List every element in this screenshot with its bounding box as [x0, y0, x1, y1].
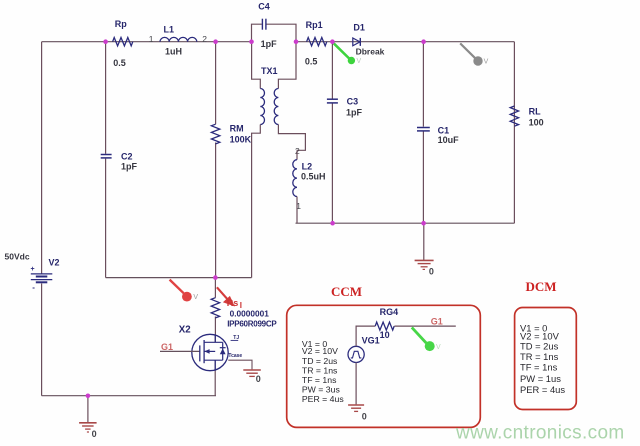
wire left edge lower	[41, 284, 43, 396]
node dot bottom rail	[86, 394, 91, 399]
current probe red at Rs	[217, 287, 242, 310]
resistor RM	[211, 124, 251, 145]
svg-text:L1: L1	[164, 24, 175, 34]
source V2 battery	[5, 252, 60, 292]
wire middle rail	[106, 277, 252, 279]
svg-text:TF = 1ns: TF = 1ns	[520, 362, 558, 373]
ground 0 at MOSFET	[243, 370, 261, 384]
svg-text:RL: RL	[529, 106, 541, 116]
svg-text:100: 100	[529, 118, 544, 128]
node dot top D	[294, 39, 299, 44]
capacitor C3	[327, 96, 363, 117]
svg-text:0.0000001: 0.0000001	[230, 309, 270, 319]
capacitor C1	[417, 125, 459, 145]
svg-text:G1: G1	[431, 317, 443, 327]
node dot top C	[249, 39, 254, 44]
svg-text:1pF: 1pF	[261, 39, 278, 49]
svg-text:50Vdc: 50Vdc	[5, 252, 30, 262]
svg-text:C2: C2	[121, 152, 133, 162]
CCM annotation box	[287, 305, 481, 427]
svg-text:Rp1: Rp1	[306, 20, 323, 30]
CCM parameter text	[302, 339, 344, 404]
inductor L2	[293, 146, 326, 223]
svg-text:C4: C4	[258, 1, 270, 11]
svg-text:TR = 1ns: TR = 1ns	[302, 366, 338, 376]
svg-text:RG4: RG4	[380, 307, 399, 317]
svg-text:1: 1	[149, 34, 154, 44]
svg-text:TF = 1ns: TF = 1ns	[302, 375, 337, 385]
voltage probe gray	[460, 43, 488, 65]
svg-text:Rs: Rs	[227, 298, 239, 308]
node dot output rail right	[421, 221, 426, 226]
svg-text:PER = 4us: PER = 4us	[302, 394, 344, 404]
svg-text:I: I	[240, 301, 242, 310]
svg-text:CCM: CCM	[331, 284, 362, 299]
svg-text:IPP60R099CP: IPP60R099CP	[227, 320, 277, 329]
capacitor C2	[101, 152, 138, 172]
svg-text:100K: 100K	[230, 135, 252, 145]
svg-text:RM: RM	[230, 124, 244, 134]
svg-text:Dbreak: Dbreak	[356, 47, 385, 57]
node dot top B	[213, 39, 218, 44]
svg-text:V: V	[484, 59, 489, 66]
svg-text:0.5: 0.5	[305, 56, 318, 66]
DCM parameter text	[520, 322, 565, 394]
svg-text:TR = 1ns: TR = 1ns	[520, 351, 559, 362]
svg-text:V2 = 10V: V2 = 10V	[520, 330, 560, 341]
node dot middle rail	[213, 275, 218, 280]
svg-text:1uH: 1uH	[165, 47, 182, 57]
wire C3 branch	[331, 42, 333, 99]
voltage probe red	[170, 280, 199, 302]
wire right edge	[513, 42, 515, 224]
svg-text:V: V	[193, 294, 198, 301]
svg-text:TD = 2us: TD = 2us	[302, 356, 338, 366]
svg-text:D1: D1	[353, 22, 365, 32]
svg-text:www.cntronics.com: www.cntronics.com	[455, 423, 625, 444]
diode D1	[353, 22, 385, 56]
wire bottom rail	[42, 395, 216, 397]
svg-text:Tcase: Tcase	[228, 353, 242, 359]
svg-text:1: 1	[296, 201, 301, 211]
wire Tcase to ground	[228, 360, 252, 369]
svg-text:1pF: 1pF	[346, 108, 363, 118]
wire RM branch	[215, 42, 217, 125]
transformer TX1	[252, 42, 306, 278]
svg-text:0: 0	[429, 267, 434, 277]
source VG1	[348, 335, 380, 362]
svg-text:C3: C3	[347, 96, 359, 106]
resistor Rs	[211, 298, 277, 329]
wire top rail right	[296, 41, 514, 43]
svg-text:L2: L2	[302, 161, 313, 171]
svg-text:DCM: DCM	[526, 279, 557, 294]
transistor X2	[160, 324, 242, 370]
resistor RG4	[375, 307, 398, 340]
voltage probe green in CCM	[412, 327, 441, 351]
svg-text:V2: V2	[49, 257, 60, 267]
svg-text:10: 10	[380, 330, 390, 340]
voltage probe green at node	[334, 43, 362, 65]
node dot top E	[330, 39, 335, 44]
svg-text:G1: G1	[161, 342, 173, 352]
svg-text:Rp: Rp	[115, 19, 127, 29]
svg-text:10uF: 10uF	[438, 135, 460, 145]
svg-text:0: 0	[362, 411, 367, 421]
resistor Rp	[113, 19, 133, 68]
svg-text:0: 0	[256, 374, 261, 384]
ground 0 output rail	[415, 223, 434, 276]
wire VG1 top to RG4	[356, 326, 375, 346]
inductor L1	[149, 24, 208, 56]
wire RG4 to G1	[394, 325, 455, 327]
node dot top F	[421, 39, 426, 44]
wire VG1 bottom	[355, 363, 357, 405]
ground 0 in CCM	[348, 405, 367, 421]
svg-text:+: +	[31, 266, 35, 273]
svg-text:X2: X2	[179, 324, 191, 335]
wire MOSFET source down	[214, 360, 216, 396]
svg-text:-: -	[32, 283, 35, 292]
DCM annotation box	[515, 308, 577, 410]
svg-text:TD = 2us: TD = 2us	[520, 341, 559, 352]
svg-text:V: V	[436, 344, 441, 351]
wire left edge upper	[41, 42, 43, 274]
svg-text:1pF: 1pF	[121, 161, 138, 171]
svg-text:0.5uH: 0.5uH	[301, 171, 326, 181]
svg-text:PW = 1us: PW = 1us	[520, 373, 561, 384]
svg-text:VG1: VG1	[362, 335, 380, 345]
wire C1 branch	[422, 42, 424, 127]
ground 0 bottom-left	[79, 396, 97, 439]
wire top rail left	[42, 41, 252, 43]
svg-text:V: V	[357, 58, 362, 65]
node dot top A	[103, 39, 108, 44]
resistor Rp1	[305, 20, 327, 67]
node dot output rail left	[330, 221, 335, 226]
wire C2 branch	[105, 42, 107, 154]
svg-text:2: 2	[202, 34, 207, 44]
svg-text:C1: C1	[438, 125, 450, 135]
svg-text:0: 0	[92, 429, 97, 439]
svg-text:TX1: TX1	[261, 66, 278, 76]
wire output bottom rail	[296, 222, 515, 224]
svg-text:0.5: 0.5	[113, 58, 126, 68]
resistor RL	[510, 106, 543, 128]
svg-text:PER = 4us: PER = 4us	[520, 384, 565, 395]
capacitor C4	[252, 1, 297, 49]
svg-text:V2 = 10V: V2 = 10V	[302, 346, 338, 356]
wire Rs branch	[214, 278, 216, 298]
